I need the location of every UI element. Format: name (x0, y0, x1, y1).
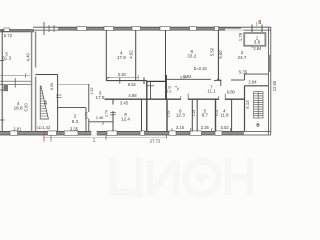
room 3/17.8 walls (88, 84, 90, 112)
svg-text:3.45: 3.45 (120, 100, 129, 105)
svg-text:3.02: 3.02 (215, 110, 219, 117)
svg-text:4.88: 4.88 (128, 93, 137, 98)
closet tick (146, 85, 154, 87)
window bottom 6 (190, 131, 202, 135)
window bottom 3 (140, 131, 145, 135)
svg-text:11.8: 11.8 (220, 113, 229, 118)
tick x119.8 (119, 78, 121, 84)
door tick room4 (218, 96, 220, 100)
svg-text:b=0.10: b=0.10 (194, 66, 208, 71)
window W6 top (215, 27, 219, 31)
room4 right wall (231, 99, 233, 131)
window W1 top (77, 27, 87, 31)
dim line left rooms (0, 75, 30, 77)
svg-text:12.3: 12.3 (176, 113, 185, 118)
tick x144 (143, 77, 145, 84)
svg-text:2.25: 2.25 (201, 125, 210, 130)
svg-text:8: 8 (258, 20, 261, 26)
stair block left (triangle) (57, 75, 59, 132)
window bottom 1 (10, 131, 18, 135)
svg-text:3.18: 3.18 (166, 111, 170, 118)
svg-text:12.60: 12.60 (272, 80, 277, 91)
left outer wall (1, 30, 3, 134)
red line at x44 (43, 131, 45, 142)
top wall main (gray band) (33, 27, 271, 30)
door tick room6 (180, 96, 182, 100)
window W5 top (190, 27, 197, 31)
window bottom A (48, 131, 57, 135)
svg-text:1.42: 1.42 (42, 125, 51, 130)
window bottom B (64, 131, 78, 135)
left wall tick y60 (0, 60, 5, 62)
tick on top wall x54 (53, 25, 55, 32)
interior wall between left section and main (31, 32, 33, 132)
window bottom 7 (215, 131, 222, 135)
svg-text:6.13: 6.13 (245, 100, 250, 109)
svg-text:3.15: 3.15 (176, 125, 185, 130)
svg-text:1.70: 1.70 (105, 110, 109, 117)
room 8 bottom wall (166, 78, 212, 80)
green entry strip (225, 29, 244, 31)
svg-text:5.60: 5.60 (218, 50, 223, 59)
window top-left (4, 28, 10, 31)
svg-text:У: У (177, 87, 180, 92)
bottom wall (gray band) (0, 131, 271, 135)
dim ticks bottom rooms (171, 128, 173, 131)
room6 left wall x167 (166, 99, 168, 131)
stairwell block right (244, 86, 246, 131)
svg-text:3.02: 3.02 (221, 125, 230, 130)
svg-text:8.3: 8.3 (72, 119, 79, 124)
room 2/8.3 walls (58, 107, 86, 109)
closet/duct cluster (147, 75, 166, 131)
interior wall x219.3 (217, 30, 219, 80)
svg-text:1.70: 1.70 (84, 112, 88, 119)
svg-text:18.8: 18.8 (14, 106, 23, 111)
dim line 3.20 (106, 76, 138, 78)
label У bracket (175, 86, 177, 88)
wall under rooms 4 and blank (y80.6) (106, 80, 147, 82)
green entry line (256, 22, 258, 29)
svg-text:2.84: 2.84 (253, 46, 262, 51)
svg-text:Ш: Ш (37, 125, 41, 131)
watermark heart (194, 173, 207, 184)
svg-text:1: 1 (93, 138, 96, 144)
stair ladder (254, 92, 263, 119)
left wall tick y90 (0, 89, 5, 91)
svg-text:11.1: 11.1 (207, 88, 216, 93)
svg-text:4.40: 4.40 (26, 52, 31, 61)
svg-text:5.35: 5.35 (239, 69, 248, 74)
door opening (red 1 entrance) (91, 131, 96, 135)
svg-text:27.72: 27.72 (150, 139, 161, 144)
svg-text:3.20: 3.20 (118, 72, 127, 77)
tick on top wall x49 (48, 25, 50, 32)
partition 6|5 duct pair (191, 99, 193, 131)
ticks right of stair wall (56, 94, 62, 96)
corridor wall (long, y99.2) (105, 98, 182, 100)
svg-text:5.00: 5.00 (24, 103, 29, 112)
svg-text:2: 2 (74, 114, 77, 119)
interior wall x106 (105, 30, 107, 81)
tick below room1 box (251, 46, 253, 48)
svg-text:5.50: 5.50 (210, 47, 215, 56)
divider wall rooms 5/4 left section (0, 80, 31, 82)
svg-text:0.94: 0.94 (180, 76, 187, 80)
svg-text:17.9: 17.9 (117, 55, 126, 60)
svg-text:4.92: 4.92 (129, 50, 134, 59)
svg-text:12.4: 12.4 (121, 116, 130, 121)
tick divider (14, 78, 16, 88)
window W2 top (104, 27, 114, 31)
window W3 top (132, 27, 141, 31)
tick on top wall x262 (261, 25, 263, 33)
watermark ЦИаН (113, 158, 250, 198)
partition 5|4 (215, 99, 217, 131)
window bottom 2 (107, 131, 117, 135)
staircase triangle (40, 86, 48, 119)
window W4 top (160, 27, 170, 31)
svg-text:1.78: 1.78 (238, 32, 243, 41)
svg-text:2.81: 2.81 (13, 126, 22, 131)
interior wall x134.8 (135, 30, 137, 81)
room 9 walls (112, 99, 114, 104)
right outer wall (268, 27, 270, 134)
tick on top wall x252 (251, 25, 253, 33)
svg-text:3.8: 3.8 (254, 40, 261, 45)
svg-text:31.3: 31.3 (2, 55, 11, 60)
svg-text:3.35: 3.35 (70, 127, 79, 132)
landing edge line (58, 83, 89, 85)
tick below 2.48 (102, 122, 104, 125)
svg-text:5.72: 5.72 (4, 33, 13, 38)
svg-text:2.48: 2.48 (96, 116, 103, 120)
left wall tick y120 (0, 119, 5, 121)
svg-text:33.2: 33.2 (187, 54, 196, 59)
svg-text:2.25: 2.25 (192, 110, 196, 117)
svg-text:24.7: 24.7 (238, 55, 247, 60)
bottom dim line (44, 136, 166, 138)
pier block left (4, 85, 9, 92)
svg-text:8.7: 8.7 (202, 113, 209, 118)
svg-text:8.05: 8.05 (50, 83, 54, 90)
room2 bottom walls / lobby steps (214, 79, 222, 81)
window bottom 4 (169, 131, 176, 135)
svg-text:6.62: 6.62 (128, 82, 137, 87)
svg-text:2.94: 2.94 (248, 80, 257, 85)
interior wall x165.5 (165, 30, 167, 81)
svg-text:1.6: 1.6 (167, 89, 172, 93)
room 1 box (244, 33, 265, 46)
door arc room4 (107, 77, 110, 80)
top-left wall of left section (0, 30, 34, 32)
svg-text:6.80: 6.80 (227, 90, 236, 95)
tick on top wall x44 (43, 22, 45, 35)
ticks on room9 left wall (110, 111, 116, 113)
svg-text:4.52: 4.52 (90, 88, 94, 95)
svg-text:17.8: 17.8 (96, 95, 105, 100)
